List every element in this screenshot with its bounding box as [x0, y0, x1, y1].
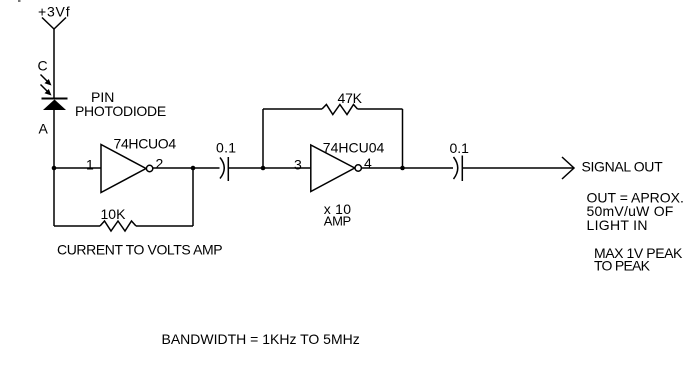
node B junction dot: [191, 166, 196, 171]
svg-text:2: 2: [156, 156, 164, 172]
svg-text:C: C: [38, 58, 48, 74]
svg-text:LIGHT IN: LIGHT IN: [587, 217, 648, 233]
U1B output bubble: [355, 165, 361, 171]
wire supply to photodiode: [53, 29, 55, 99]
wire feedback 2 top left: [263, 108, 322, 110]
node D junction dot: [400, 166, 405, 171]
capacitor C2 curved plate: [454, 157, 458, 179]
svg-text:74HCUO4: 74HCUO4: [114, 136, 177, 152]
wire photodiode to node A: [53, 110, 55, 168]
node C junction dot: [261, 166, 266, 171]
svg-text:0.1: 0.1: [216, 140, 236, 156]
svg-text:CURRENT TO VOLTS AMP: CURRENT TO VOLTS AMP: [57, 242, 222, 258]
wire feedback 2 left vertical: [262, 109, 264, 168]
svg-text:SIGNAL OUT: SIGNAL OUT: [582, 159, 664, 175]
wire node C to U1B input: [263, 167, 311, 169]
op-amp U1B 74HCU04 inverter triangle: [311, 145, 355, 192]
U1A output bubble: [146, 165, 152, 171]
wire feedback bottom left: [54, 225, 100, 227]
output arrow head: [562, 157, 574, 179]
svg-text:PHOTODIODE: PHOTODIODE: [75, 103, 166, 119]
stray mark top-left: [18, 0, 21, 2]
wire C1 to node C: [228, 167, 263, 169]
wire node D to capacitor C2: [403, 167, 454, 169]
capacitor C1 curved plate: [220, 158, 224, 179]
capacitor C2 straight plate: [461, 156, 463, 182]
photodiode D1 cathode bar: [42, 98, 68, 100]
wire feedback 2 right vertical: [402, 109, 404, 168]
op-amp U1A 74HCUO4 inverter triangle: [101, 145, 146, 193]
supply V symbol: [42, 18, 66, 30]
photodiode D1 triangle: [43, 100, 66, 111]
wire node A to U1A input: [54, 167, 101, 169]
resistor R2 47K zigzag: [322, 105, 358, 115]
svg-text:0.1: 0.1: [450, 140, 470, 156]
wire node B to capacitor C1: [193, 167, 220, 169]
svg-text:3: 3: [294, 157, 302, 173]
svg-text:A: A: [39, 121, 49, 137]
wire feedback bottom right: [136, 225, 193, 227]
capacitor C1 straight plate: [227, 157, 229, 181]
wire U1A output to node B: [153, 167, 193, 169]
svg-text:74HCU04: 74HCU04: [323, 140, 385, 156]
svg-text:TO PEAK: TO PEAK: [594, 258, 651, 274]
svg-text:BANDWIDTH = 1KHz TO 5MHz: BANDWIDTH = 1KHz TO 5MHz: [162, 331, 360, 347]
svg-text:AMP: AMP: [324, 214, 351, 229]
svg-text:47K: 47K: [338, 90, 363, 106]
svg-text:1: 1: [86, 157, 94, 173]
resistor R1 10K zigzag: [100, 221, 136, 231]
wire node A down to feedback: [53, 168, 55, 226]
light arrow 2: [41, 85, 52, 96]
wire C2 to output arrow: [462, 167, 574, 169]
wire feedback 2 top right: [358, 108, 403, 110]
svg-text:10K: 10K: [101, 206, 127, 222]
wire feedback right vertical: [192, 168, 194, 226]
wire U1B output to node D: [361, 167, 402, 169]
node A junction dot: [52, 166, 57, 171]
light arrow 1: [41, 75, 52, 86]
